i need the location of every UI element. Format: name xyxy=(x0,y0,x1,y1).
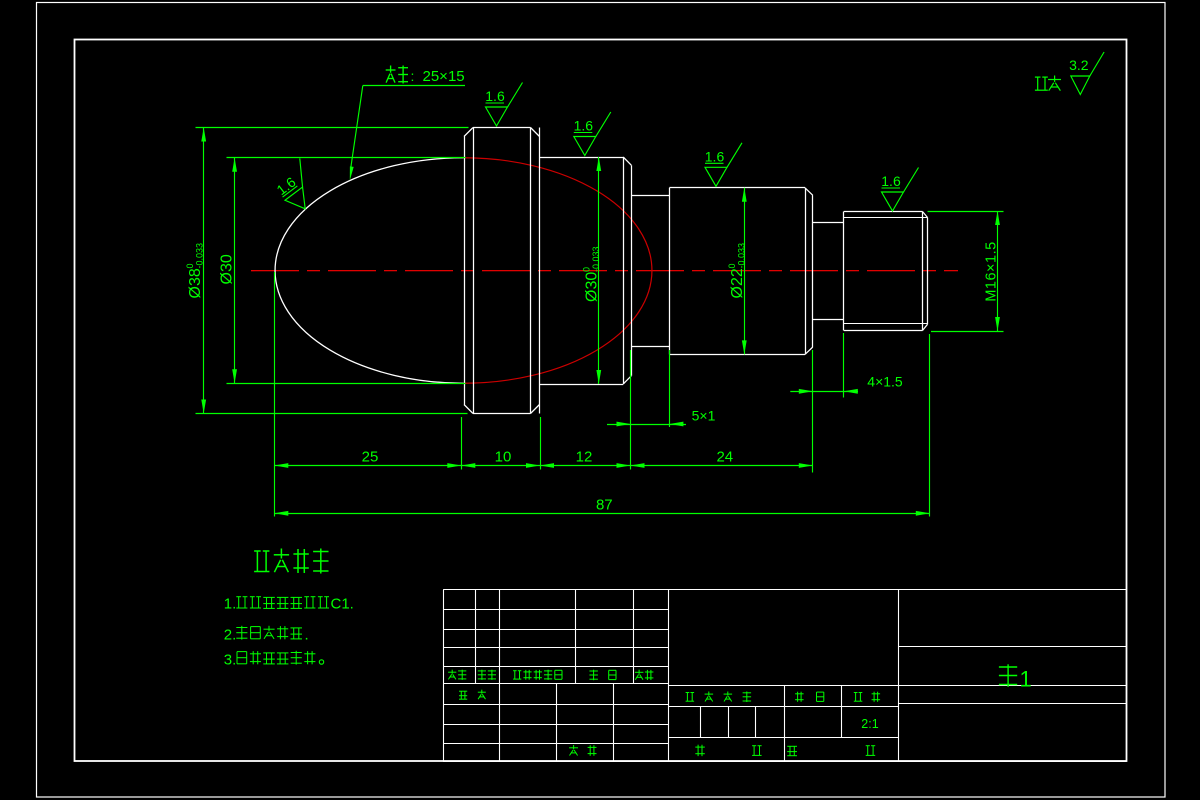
centerline xyxy=(251,270,958,272)
svg-text:1.6: 1.6 xyxy=(574,118,594,134)
svg-text:3.2: 3.2 xyxy=(1069,57,1089,73)
svg-text:C1.: C1. xyxy=(331,596,354,613)
section D22 xyxy=(669,188,812,355)
dimension D38 xyxy=(185,128,469,414)
title block labels row: biaoji chushu gengai signature date xyxy=(448,670,653,681)
section D30 xyxy=(540,157,632,385)
svg-text:2.: 2. xyxy=(224,627,237,644)
threaded section M16 xyxy=(844,212,928,331)
svg-text::: : xyxy=(411,68,415,84)
ellipse head white arc (left half outline) xyxy=(275,158,463,384)
title block scale 2:1 xyxy=(861,717,878,731)
title block riqi (date) bottom xyxy=(569,745,596,756)
chained length dimensions 25 10 12 24 xyxy=(274,272,813,517)
svg-text:.: . xyxy=(305,627,309,644)
svg-text:1: 1 xyxy=(1020,667,1032,692)
dimension 5x1 groove xyxy=(607,350,716,427)
svg-text:25: 25 xyxy=(362,449,379,466)
svg-text:24: 24 xyxy=(716,449,733,466)
svg-text:5×1: 5×1 xyxy=(692,408,716,424)
collar section D38 xyxy=(464,128,540,414)
dimension D30 -0.033 xyxy=(582,157,602,384)
svg-text:-0.033: -0.033 xyxy=(591,246,601,272)
svg-text:1.6: 1.6 xyxy=(705,149,725,165)
svg-text:1.6: 1.6 xyxy=(881,173,901,189)
svg-text:12: 12 xyxy=(576,449,593,466)
svg-text:0: 0 xyxy=(582,267,592,272)
svg-text:1.6: 1.6 xyxy=(485,88,505,104)
title block sheji (design) xyxy=(459,690,486,700)
part name jian1 xyxy=(999,664,1032,691)
svg-text:-0.033: -0.033 xyxy=(195,243,205,269)
svg-text:0: 0 xyxy=(727,263,737,268)
tech req item 2 xyxy=(224,626,309,644)
relief groove 5x1 xyxy=(631,196,669,347)
svg-text:4×1.5: 4×1.5 xyxy=(867,374,903,390)
title block tuyang biaoji / zhongliang / bili labels xyxy=(686,692,881,703)
tech req item 1 xyxy=(224,596,354,613)
ellipse head red arc (hidden right half) xyxy=(464,158,652,384)
tech req item 3 xyxy=(224,651,324,669)
title block grid xyxy=(443,590,1126,762)
svg-text:0: 0 xyxy=(185,263,195,268)
dimension D30 ellipse xyxy=(219,158,466,384)
dimension D22 -0.033 xyxy=(727,188,747,355)
title block gong zhang di zhang xyxy=(695,745,875,756)
leader label ellipse 25x15 xyxy=(350,66,465,181)
roughness 3.2 rest (qiyu) xyxy=(1035,52,1104,95)
dimension 4x1.5 neck xyxy=(790,333,903,398)
roughness 1.6 on D22 xyxy=(705,143,742,187)
svg-text:87: 87 xyxy=(596,496,613,513)
thread relief neck 4x1.5 xyxy=(813,223,844,320)
dimension M16x1.5 xyxy=(928,211,1004,332)
svg-text:1.: 1. xyxy=(224,596,237,613)
svg-text:-0.033: -0.033 xyxy=(737,243,747,269)
svg-text:2:1: 2:1 xyxy=(861,717,878,731)
roughness 1.6 on ellipse xyxy=(270,158,326,215)
svg-text:10: 10 xyxy=(495,449,512,466)
roughness 1.6 on thread xyxy=(881,168,918,212)
technical requirements title xyxy=(254,549,328,574)
svg-text:M16×1.5: M16×1.5 xyxy=(984,241,1000,301)
roughness 1.6 on collar xyxy=(485,83,522,127)
svg-text:Ø30: Ø30 xyxy=(219,254,236,284)
overall dimension 87 xyxy=(274,334,930,517)
svg-text:Ø30: Ø30 xyxy=(584,272,601,302)
roughness 1.6 on D30 xyxy=(574,112,611,156)
inner border frame xyxy=(75,40,1127,762)
svg-text:3.: 3. xyxy=(224,652,237,669)
svg-text:25×15: 25×15 xyxy=(423,68,465,85)
svg-text:Ø22: Ø22 xyxy=(729,268,746,298)
svg-text:Ø38: Ø38 xyxy=(187,268,204,298)
